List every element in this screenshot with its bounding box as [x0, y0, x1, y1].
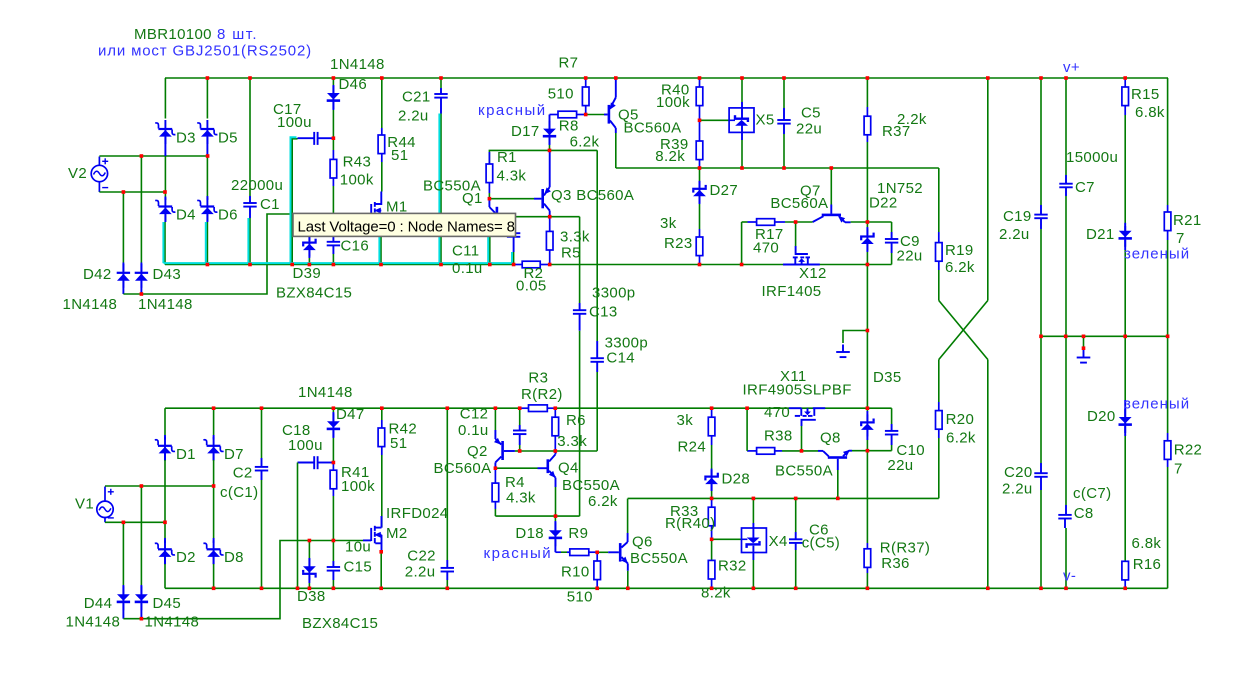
svg-text:R1: R1	[497, 149, 517, 166]
svg-text:R22: R22	[1174, 442, 1203, 459]
resistor R38	[747, 450, 757, 452]
ground mid	[1077, 350, 1091, 363]
svg-text:D42: D42	[83, 266, 112, 283]
svg-text:C20: C20	[1004, 464, 1033, 481]
wire R19 top	[938, 168, 940, 232]
wire y498 node	[628, 497, 939, 499]
wire C1 to bus selected	[249, 218, 251, 265]
wire main bus selected	[165, 264, 514, 266]
resistor R17	[742, 221, 748, 223]
diode D28 zener	[711, 470, 713, 475]
wire R17 left to bus	[741, 222, 743, 265]
svg-text:22u: 22u	[897, 248, 923, 265]
svg-text:R21: R21	[1173, 212, 1202, 229]
capacitor C11	[507, 233, 520, 237]
wire Q1 emitter selected	[489, 236, 491, 264]
svg-text:V2: V2	[68, 165, 87, 182]
optocoupler X5	[741, 78, 743, 102]
svg-text:BC560A: BC560A	[434, 460, 492, 477]
svg-text:C5: C5	[801, 105, 821, 122]
ground top	[836, 345, 850, 358]
resistor R41	[332, 463, 334, 471]
wire top rail v+	[165, 77, 1168, 79]
svg-text:v-: v-	[1063, 568, 1076, 585]
wire Q4 emitter node	[495, 515, 579, 517]
capacitor C13	[579, 217, 581, 303]
capacitor C17	[298, 137, 315, 139]
svg-text:IRFD024: IRFD024	[386, 505, 448, 522]
resistor R33	[711, 499, 713, 508]
wire bottom rail	[165, 407, 520, 409]
svg-text:51: 51	[390, 435, 407, 452]
svg-text:6.2k: 6.2k	[946, 430, 976, 447]
wire Q6 collector	[627, 499, 629, 533]
svg-text:C11: C11	[452, 243, 479, 260]
svg-text:1N4148: 1N4148	[145, 614, 200, 631]
svg-text:X5: X5	[756, 112, 775, 129]
resistor R36	[866, 451, 868, 543]
svg-text:D27: D27	[710, 182, 739, 199]
resistor R19	[938, 232, 940, 243]
svg-text:R10: R10	[561, 563, 590, 580]
mosfet X12	[783, 246, 820, 265]
svg-text:22u: 22u	[887, 457, 913, 474]
diode D20	[1124, 336, 1126, 400]
wire R1 top	[489, 150, 597, 164]
svg-text:R24: R24	[678, 439, 707, 456]
capacitor C12	[519, 408, 521, 425]
wire ground stub top	[843, 331, 867, 344]
wire V1 plus	[105, 485, 214, 487]
wire D42 D43 bottom	[123, 214, 293, 294]
svg-text:D28: D28	[722, 471, 751, 488]
resistor R43	[332, 138, 334, 150]
diode D22 zener	[866, 222, 868, 227]
svg-text:100k: 100k	[656, 94, 690, 111]
svg-text:R23: R23	[664, 235, 693, 252]
diode D43	[140, 156, 142, 263]
diode D7	[213, 408, 215, 435]
svg-text:V1: V1	[75, 496, 94, 513]
junction dots	[206, 76, 210, 80]
svg-text:R43: R43	[343, 154, 372, 171]
svg-text:D44: D44	[84, 595, 113, 612]
svg-text:100u: 100u	[288, 437, 323, 454]
svg-text:BZX84C15: BZX84C15	[276, 285, 352, 302]
tooltip Last Voltage	[293, 213, 516, 236]
wire X12 gate	[795, 222, 797, 246]
resistor R37	[866, 78, 868, 107]
resistor R15	[1124, 78, 1126, 87]
svg-text:R3: R3	[528, 369, 548, 386]
wire R38 to Q8	[802, 450, 819, 452]
wire D22 below bus	[866, 265, 868, 409]
wire R33 to X4	[712, 538, 742, 540]
resistor R32	[711, 539, 713, 560]
svg-text:D7: D7	[224, 446, 244, 463]
wire bus right section	[550, 264, 892, 266]
resistor R9	[555, 551, 561, 553]
svg-text:D6: D6	[218, 207, 238, 224]
transistor Q6	[597, 551, 608, 553]
resistor R21	[1167, 78, 1169, 205]
capacitor C16	[332, 236, 334, 241]
svg-text:470: 470	[753, 240, 779, 257]
svg-text:Last Voltage=0 : Node Names= 8: Last Voltage=0 : Node Names= 8	[298, 218, 515, 235]
svg-text:MBR10100: MBR10100	[134, 26, 212, 43]
svg-text:R(R2): R(R2)	[521, 386, 563, 403]
resistor R10	[596, 552, 598, 561]
svg-text:или мост GBJ2501(RS2502): или мост GBJ2501(RS2502)	[98, 43, 312, 60]
svg-text:C1: C1	[260, 196, 280, 213]
svg-text:6.2k: 6.2k	[588, 493, 618, 510]
wire Q3 collector node	[513, 216, 579, 218]
svg-text:R5: R5	[561, 245, 581, 262]
svg-text:Q3 BC560A: Q3 BC560A	[551, 187, 634, 204]
svg-text:2.2u: 2.2u	[398, 108, 429, 125]
svg-text:D5: D5	[218, 130, 238, 147]
svg-text:Q2: Q2	[467, 443, 488, 460]
svg-text:D1: D1	[176, 446, 196, 463]
svg-text:100u: 100u	[277, 114, 312, 131]
svg-text:D4: D4	[176, 207, 196, 224]
svg-text:1N4148: 1N4148	[138, 296, 193, 313]
capacitor C22	[446, 408, 448, 560]
diode D27 zener	[699, 168, 701, 181]
svg-text:22u: 22u	[796, 121, 822, 138]
svg-text:C12: C12	[460, 406, 489, 423]
diode D42	[122, 192, 124, 263]
svg-text:100k: 100k	[341, 478, 375, 495]
diode D46	[332, 78, 334, 86]
svg-text:D20: D20	[1087, 408, 1116, 425]
diode D47	[332, 408, 334, 412]
resistor R4	[494, 468, 496, 483]
wire Q2 collector node	[495, 467, 537, 469]
wire D6 to bus selected	[206, 222, 208, 265]
svg-text:C2: C2	[233, 465, 253, 482]
transistor Q3	[541, 189, 544, 208]
resistor R42	[381, 408, 383, 420]
transistor Q5	[608, 105, 611, 124]
svg-text:D46: D46	[339, 76, 368, 93]
diode D3	[164, 78, 166, 119]
svg-text:6.8k: 6.8k	[1132, 535, 1162, 552]
diode D38 zener	[308, 541, 310, 559]
svg-text:зеленый: зеленый	[1124, 246, 1190, 263]
diode D17	[549, 115, 551, 129]
svg-text:R15: R15	[1131, 86, 1160, 103]
transistor Q2	[494, 408, 496, 430]
svg-text:4.3k: 4.3k	[506, 489, 536, 506]
svg-text:C7: C7	[1075, 179, 1095, 196]
wire Q1 base to Q3	[489, 198, 534, 200]
wire bottom bus	[165, 587, 1168, 589]
svg-text:R38: R38	[764, 427, 793, 444]
diode D6	[206, 156, 208, 200]
wire C21 to bus selected	[440, 114, 442, 265]
resistor R39	[699, 120, 701, 141]
svg-text:0.05: 0.05	[516, 278, 547, 295]
svg-text:0.1u: 0.1u	[452, 260, 483, 277]
capacitor C2	[261, 408, 263, 458]
wire D4 to bus selected	[164, 222, 166, 265]
svg-text:R16: R16	[1133, 556, 1162, 573]
svg-text:R(R37): R(R37)	[880, 539, 930, 556]
wire M2 source	[380, 552, 382, 589]
svg-text:Q8: Q8	[820, 429, 841, 446]
svg-text:8.2k: 8.2k	[701, 585, 731, 602]
svg-text:BC550A: BC550A	[562, 477, 620, 494]
wire y168 node	[616, 167, 939, 169]
resistor R40	[699, 78, 701, 87]
svg-text:X4: X4	[769, 533, 788, 550]
svg-text:R8: R8	[559, 117, 579, 134]
svg-text:C14: C14	[606, 349, 635, 366]
capacitor C7	[1065, 78, 1067, 175]
svg-text:D22: D22	[869, 195, 898, 212]
wire Q8 base	[837, 470, 839, 498]
transistor Q7	[830, 168, 832, 205]
svg-text:c(C7): c(C7)	[1073, 485, 1111, 502]
resistor R2	[514, 264, 523, 266]
svg-text:R(R40): R(R40)	[665, 515, 715, 532]
svg-text:D3: D3	[176, 130, 196, 147]
svg-text:6.2k: 6.2k	[570, 133, 600, 150]
svg-text:D2: D2	[176, 549, 196, 566]
svg-text:X12: X12	[799, 265, 827, 282]
svg-text:красный: красный	[484, 545, 553, 562]
diode D44	[122, 522, 124, 585]
svg-text:6.2k: 6.2k	[945, 259, 975, 276]
svg-text:C8: C8	[1074, 505, 1094, 522]
capacitor C21	[440, 78, 442, 88]
source V1	[97, 501, 113, 517]
capacitor C20	[1040, 336, 1042, 463]
wire C17 left selected	[292, 139, 297, 265]
svg-text:D18: D18	[515, 525, 544, 542]
svg-text:10u: 10u	[345, 539, 371, 556]
svg-text:зеленый: зеленый	[1124, 396, 1190, 413]
resistor R23	[699, 229, 701, 237]
svg-text:Q1: Q1	[462, 190, 483, 207]
svg-text:BC560A: BC560A	[624, 120, 682, 137]
svg-text:v+: v+	[1063, 59, 1080, 76]
capacitor C5	[783, 78, 785, 108]
wire crossover	[939, 301, 988, 360]
svg-text:c(C5): c(C5)	[802, 534, 840, 551]
svg-text:4.3k: 4.3k	[497, 168, 527, 185]
mosfet M1	[371, 192, 381, 214]
svg-text:IRF4905SLPBF: IRF4905SLPBF	[743, 381, 852, 398]
wire right column x988	[987, 78, 989, 301]
svg-text:D35: D35	[873, 369, 902, 386]
svg-text:R36: R36	[881, 555, 910, 572]
optocoupler X4	[752, 499, 754, 523]
svg-text:C21: C21	[402, 89, 431, 106]
svg-text:C16: C16	[341, 238, 370, 255]
svg-text:D17: D17	[511, 123, 540, 140]
svg-text:IRF1405: IRF1405	[762, 283, 822, 300]
svg-text:3k: 3k	[660, 215, 677, 232]
svg-text:Q4: Q4	[558, 460, 579, 477]
svg-text:6.8k: 6.8k	[1135, 104, 1165, 121]
svg-text:R19: R19	[945, 242, 974, 259]
wire R40 to X5	[700, 119, 730, 121]
wire R38 left from rail	[746, 408, 748, 451]
svg-text:510: 510	[567, 589, 593, 606]
svg-text:D21: D21	[1086, 226, 1115, 243]
svg-text:C19: C19	[1003, 208, 1032, 225]
svg-text:510: 510	[548, 85, 574, 102]
capacitor C6	[795, 499, 797, 532]
svg-text:BC550A: BC550A	[630, 550, 688, 567]
capacitor C8	[1065, 336, 1067, 505]
svg-text:Q6: Q6	[632, 534, 653, 551]
diode D35 zener	[866, 408, 868, 411]
wire mid rail	[1041, 335, 1168, 337]
svg-text:470: 470	[764, 404, 790, 421]
svg-text:2.2u: 2.2u	[999, 226, 1030, 243]
svg-text:R7: R7	[559, 55, 579, 72]
svg-text:R6: R6	[566, 412, 586, 429]
svg-text:7: 7	[1176, 230, 1185, 247]
wire Q7 emitter node	[845, 221, 851, 223]
resistor R24	[711, 408, 713, 417]
capacitor C19	[1040, 78, 1042, 205]
svg-text:15000u: 15000u	[1066, 149, 1118, 166]
mosfet X11	[789, 408, 825, 426]
svg-text:D45: D45	[153, 595, 182, 612]
svg-text:D43: D43	[153, 266, 182, 283]
svg-text:3300p: 3300p	[592, 285, 635, 302]
resistor R3	[520, 407, 529, 409]
svg-text:BC550A: BC550A	[775, 463, 833, 480]
svg-text:7: 7	[1174, 460, 1183, 477]
svg-text:C22: C22	[407, 547, 436, 564]
svg-text:D39: D39	[293, 265, 322, 282]
svg-text:R20: R20	[946, 411, 975, 428]
svg-text:1N4148: 1N4148	[330, 56, 385, 73]
wire V2 minus	[99, 191, 165, 193]
svg-text:2.2u: 2.2u	[405, 564, 436, 581]
source V2	[91, 165, 107, 181]
wire V2 plus	[99, 155, 208, 157]
svg-text:BC560A: BC560A	[770, 195, 828, 212]
resistor R7	[585, 78, 587, 87]
resistor R1	[488, 152, 490, 164]
svg-text:C13: C13	[589, 303, 618, 320]
resistor R8	[550, 114, 559, 116]
resistor R22	[1167, 336, 1169, 433]
svg-text:D47: D47	[336, 406, 365, 423]
wire C11 to bus selected	[513, 252, 515, 265]
mosfet M2	[363, 516, 382, 552]
svg-text:3.3k: 3.3k	[557, 433, 587, 450]
svg-text:R37: R37	[882, 123, 911, 140]
diode D4	[164, 192, 166, 197]
capacitor C1	[249, 78, 251, 196]
transistor Q4	[538, 467, 547, 469]
diode D21	[1124, 226, 1126, 231]
capacitor C10	[891, 408, 893, 424]
svg-text:3.3k: 3.3k	[560, 229, 590, 246]
resistor R20	[938, 360, 940, 403]
svg-text:0.1u: 0.1u	[458, 422, 489, 439]
resistor R6	[554, 408, 556, 417]
svg-text:BZX84C15: BZX84C15	[302, 615, 378, 632]
capacitor C9	[891, 222, 893, 232]
wire Q2 base node	[520, 450, 598, 452]
svg-text:R9: R9	[568, 525, 588, 542]
svg-text:2.2u: 2.2u	[1002, 481, 1033, 498]
svg-text:8 шт.: 8 шт.	[217, 26, 258, 43]
capacitor C15	[332, 541, 334, 562]
diode D18	[554, 516, 556, 521]
svg-text:R32: R32	[718, 558, 747, 575]
wire X11 gate	[801, 426, 803, 451]
wire D44 D45 bottom	[123, 541, 363, 619]
svg-text:1N4148: 1N4148	[66, 614, 121, 631]
svg-text:1N4148: 1N4148	[298, 384, 353, 401]
capacitor C14	[596, 150, 598, 341]
diode D8	[213, 486, 215, 538]
svg-text:C15: C15	[344, 559, 373, 576]
diode D39 zener	[308, 236, 310, 241]
resistor R16	[1124, 560, 1126, 562]
svg-text:c(C1): c(C1)	[220, 484, 258, 501]
svg-text:красный: красный	[478, 102, 547, 119]
diode D2	[164, 522, 166, 538]
wire V1 minus	[105, 521, 165, 523]
svg-text:1N4148: 1N4148	[63, 296, 118, 313]
svg-text:D38: D38	[297, 588, 326, 605]
wire ground stub mid	[1083, 336, 1085, 348]
svg-text:51: 51	[391, 147, 408, 164]
svg-text:M2: M2	[386, 525, 408, 542]
transistor Q8	[818, 450, 823, 452]
svg-text:100k: 100k	[340, 171, 374, 188]
svg-text:8.2k: 8.2k	[655, 148, 685, 165]
wire Q8 emitter node	[849, 450, 852, 452]
resistor R5	[549, 217, 551, 232]
svg-text:22000u: 22000u	[231, 177, 283, 194]
resistor R44	[381, 78, 383, 128]
transistor Q1	[534, 198, 541, 200]
diode D5	[206, 78, 208, 119]
svg-text:D8: D8	[224, 549, 244, 566]
diode D1	[164, 408, 166, 435]
capacitor C18	[298, 462, 315, 464]
wire M1 source to bus selected	[380, 236, 382, 264]
diode D45	[140, 486, 142, 585]
svg-text:3k: 3k	[677, 412, 694, 429]
